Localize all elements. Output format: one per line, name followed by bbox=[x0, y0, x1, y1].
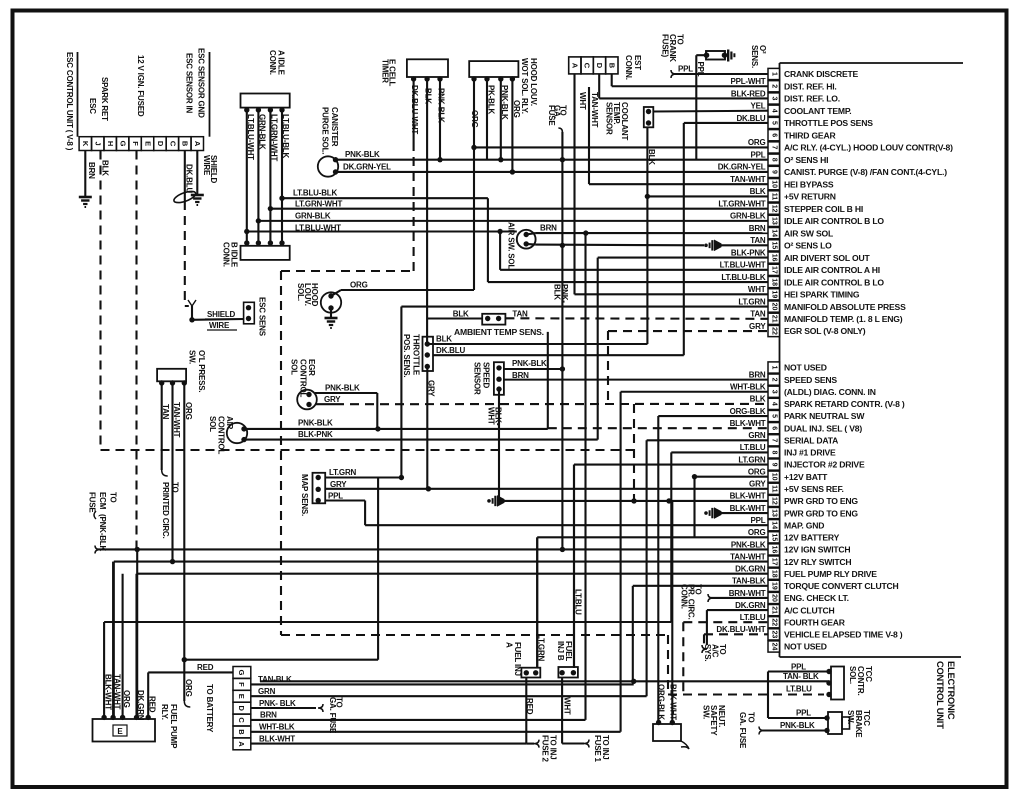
svg-text:G: G bbox=[237, 670, 246, 676]
svg-text:SW.: SW. bbox=[701, 705, 710, 719]
svg-text:HOOD LOUV.: HOOD LOUV. bbox=[529, 58, 538, 106]
svg-text:9: 9 bbox=[771, 463, 778, 467]
svg-text:7: 7 bbox=[771, 145, 778, 149]
wire row7 ORG trunk bbox=[341, 77, 768, 290]
ECU connector 2 pin 8: INJ #1 DRIVE bbox=[740, 443, 836, 458]
label TCC CONTR. SOL. bbox=[848, 666, 873, 695]
svg-text:CONN.: CONN. bbox=[624, 55, 633, 80]
pump wires bbox=[104, 562, 671, 718]
air control solenoid bbox=[227, 423, 598, 443]
svg-text:AMBIENT TEMP SENS.: AMBIENT TEMP SENS. bbox=[454, 327, 544, 337]
svg-text:ORG: ORG bbox=[748, 528, 766, 537]
svg-text:COOLANT TEMP.: COOLANT TEMP. bbox=[784, 106, 851, 116]
svg-text:BLK-WHT: BLK-WHT bbox=[730, 492, 766, 501]
labels bottom strip wires bbox=[258, 675, 296, 743]
ECU connector 1 pin 3: DIST. REF. LO. bbox=[731, 89, 840, 104]
svg-text:BRN: BRN bbox=[749, 224, 766, 233]
svg-text:ORG-BLK: ORG-BLK bbox=[730, 407, 766, 416]
svg-text:PNK-BLK: PNK-BLK bbox=[780, 721, 815, 730]
svg-text:BRN: BRN bbox=[260, 711, 277, 720]
E cell timer box bbox=[407, 59, 448, 81]
svg-text:INJ #1 DRIVE: INJ #1 DRIVE bbox=[784, 448, 836, 458]
svg-text:ORG: ORG bbox=[122, 690, 131, 708]
svg-text:PNK-BLK: PNK-BLK bbox=[345, 150, 380, 159]
svg-text:19: 19 bbox=[771, 582, 778, 590]
wire s2 row17 TAN-WHT 12V rly switch bbox=[114, 559, 768, 718]
svg-text:ORG: ORG bbox=[748, 467, 766, 476]
svg-text:LT.GRN: LT.GRN bbox=[738, 297, 766, 306]
svg-text:SOL.: SOL. bbox=[296, 283, 305, 301]
svg-text:INJ B: INJ B bbox=[556, 641, 565, 661]
wire row14 BRN / LT.BLU-WHT bus bbox=[536, 230, 768, 235]
ECU connector 2 pin 3: (ALDL) DIAG. CONN. IN bbox=[730, 383, 876, 398]
label TO PR.CIRC.CONN. bbox=[680, 584, 703, 620]
svg-text:1: 1 bbox=[771, 72, 778, 76]
svg-text:WHT-BLK: WHT-BLK bbox=[259, 723, 295, 732]
label RED / LT.GRN bbox=[525, 634, 546, 715]
svg-text:INJECTOR #2 DRIVE: INJECTOR #2 DRIVE bbox=[784, 460, 865, 470]
fuel pump relay bbox=[93, 715, 156, 742]
svg-text:TAN-WHT: TAN-WHT bbox=[113, 674, 122, 710]
svg-text:CONN.: CONN. bbox=[221, 242, 230, 267]
svg-text:RED: RED bbox=[197, 663, 214, 672]
svg-text:GRN-BLK: GRN-BLK bbox=[730, 212, 766, 221]
wire s2 row15 ORG bbox=[537, 537, 768, 667]
ESC control unit outline bbox=[77, 52, 79, 137]
idle conn wires 4 columns bbox=[247, 110, 282, 243]
TCC control solenoid bbox=[768, 667, 844, 719]
ECU connector 1 pin 17: IDLE AIR CONTROL A HI bbox=[720, 261, 880, 276]
svg-text:E: E bbox=[143, 141, 152, 146]
svg-text:2: 2 bbox=[771, 84, 778, 88]
label THROTTLE POS. SENS. bbox=[402, 334, 421, 377]
ECU connector 2 pin 19: TORQUE CONVERT CLUTCH bbox=[732, 577, 899, 592]
fuel injector A bbox=[521, 537, 540, 747]
svg-text:SENSOR: SENSOR bbox=[604, 102, 613, 135]
svg-text:3: 3 bbox=[771, 390, 778, 394]
wire s2 row10 ORG bbox=[692, 474, 768, 537]
ECU connector 2 pin 13: PWR GRD TO ENG bbox=[730, 504, 859, 519]
svg-text:18: 18 bbox=[771, 570, 778, 578]
svg-text:ORG: ORG bbox=[470, 110, 479, 128]
svg-text:TO BATTERY: TO BATTERY bbox=[205, 684, 214, 733]
svg-text:11: 11 bbox=[771, 485, 778, 493]
svg-text:2: 2 bbox=[771, 378, 778, 382]
wire row21 TAN dashed from ambient temp bbox=[505, 317, 768, 320]
ECU connector 1 pin 7: A/C RLY. (4-CYL.) HOOD LOUV CONTR(V-8) bbox=[748, 138, 953, 153]
svg-text:LT.GRN-WHT: LT.GRN-WHT bbox=[270, 114, 279, 161]
ECU connector 2 pin 20: ENG. CHECK LT. bbox=[729, 589, 849, 604]
canister purge solenoid bbox=[318, 156, 338, 176]
svg-text:16: 16 bbox=[771, 254, 778, 262]
svg-text:FUSE: FUSE bbox=[547, 105, 556, 126]
labels TCC brake wires bbox=[780, 709, 815, 731]
EST wire labels WHT TAN-WHT bbox=[578, 92, 599, 128]
ECU connector 1 pin 2: DIST. REF. HI. bbox=[730, 77, 836, 92]
svg-text:+12V BATT: +12V BATT bbox=[784, 472, 828, 482]
label O'L PRESS. SW. bbox=[188, 350, 207, 392]
svg-text:TAN- BLK: TAN- BLK bbox=[783, 672, 819, 681]
o'l press wires bbox=[162, 383, 378, 707]
svg-text:GRN: GRN bbox=[748, 431, 766, 440]
ECU connector 2 pin 9: INJECTOR #2 DRIVE bbox=[738, 455, 865, 470]
ECU connector 2 pin 24: NOT USED bbox=[768, 641, 827, 652]
ECU connector 1 pin 14: AIR SW SOL bbox=[749, 224, 833, 239]
label TO PRINTED CIRC. bbox=[161, 482, 180, 539]
wire row17 LT.BLU-WHT riser bbox=[500, 232, 768, 270]
TAN-BLK bus to TCC bbox=[260, 679, 829, 684]
wire s2 row18 DK.GRN fuel pump rly drive bbox=[137, 549, 768, 717]
svg-text:15: 15 bbox=[771, 241, 778, 249]
wire s2 row4 BLK / GRY dashed bbox=[335, 403, 768, 405]
wire row12 LT.GRN-WHT from idle conn bbox=[268, 206, 768, 211]
labels throttle wires bbox=[427, 335, 466, 398]
MAP sensor bbox=[313, 473, 405, 504]
ESC pin G bbox=[116, 137, 128, 151]
wire ESC B DK.BLU shielded bbox=[173, 151, 197, 307]
svg-text:TAN-BLK: TAN-BLK bbox=[732, 577, 766, 586]
svg-text:BLK-WHT: BLK-WHT bbox=[730, 504, 766, 513]
ECU connector 2 pin 15: 12V BATTERY bbox=[748, 528, 840, 543]
svg-text:WIRE: WIRE bbox=[209, 321, 230, 330]
neutral safety switch bbox=[653, 501, 689, 749]
svg-text:13: 13 bbox=[771, 217, 778, 225]
svg-text:PNK-BLK: PNK-BLK bbox=[298, 419, 333, 428]
ECU connector 1 pin 12: STEPPER COIL B HI bbox=[718, 199, 863, 214]
svg-text:RED: RED bbox=[148, 696, 157, 713]
svg-text:O² SENS LO: O² SENS LO bbox=[784, 241, 832, 251]
svg-text:PPL: PPL bbox=[328, 491, 343, 500]
svg-text:IDLE AIR CONTROL B LO: IDLE AIR CONTROL B LO bbox=[784, 216, 884, 226]
svg-text:BLK: BLK bbox=[750, 395, 766, 404]
label TO GA. FUSE (bottom strip) bbox=[328, 697, 344, 734]
wire row5 DK.BLU trunk to throttle pos sens bbox=[433, 123, 768, 355]
svg-text:DK.BLU-WHT: DK.BLU-WHT bbox=[410, 85, 419, 134]
label AIR CONTROL SOL bbox=[208, 416, 234, 454]
svg-text:SENS.: SENS. bbox=[750, 45, 759, 68]
svg-text:SHIELD: SHIELD bbox=[207, 310, 236, 319]
svg-text:B: B bbox=[237, 729, 246, 735]
svg-text:DIST. REF. LO.: DIST. REF. LO. bbox=[784, 94, 840, 104]
wire row4 YEL from coolant sensor bbox=[653, 110, 768, 113]
svg-text:19: 19 bbox=[771, 290, 778, 298]
wire s2 row14 PPL from MAP bbox=[325, 501, 768, 526]
svg-text:PPL: PPL bbox=[796, 709, 811, 718]
svg-text:EST: EST bbox=[633, 55, 642, 70]
svg-text:LT.BLU-BLK: LT.BLU-BLK bbox=[281, 114, 290, 158]
ESC SENS box bbox=[244, 302, 255, 324]
label TO INJ FUSE 2 bbox=[541, 735, 558, 763]
EGR control solenoid bbox=[297, 390, 380, 432]
label E CELL TIMER bbox=[381, 59, 397, 87]
ECU connector 2 pin 22: FOURTH GEAR bbox=[740, 613, 846, 628]
svg-text:ECM: ECM bbox=[98, 492, 107, 510]
svg-text:6: 6 bbox=[771, 133, 778, 137]
TCC brake switch bbox=[759, 712, 850, 735]
svg-text:18: 18 bbox=[771, 278, 778, 286]
label TO INJ FUSE 1 bbox=[593, 735, 610, 763]
labels idle wire colors bbox=[246, 114, 290, 161]
svg-text:WHT: WHT bbox=[487, 407, 496, 425]
svg-text:EGR: EGR bbox=[307, 359, 316, 376]
svg-text:PK-BLK: PK-BLK bbox=[487, 85, 496, 114]
svg-text:GRY: GRY bbox=[324, 395, 341, 404]
labels MAP wires bbox=[328, 468, 357, 500]
svg-text:FUSE 1: FUSE 1 bbox=[593, 735, 602, 763]
svg-text:22: 22 bbox=[771, 618, 778, 626]
ESC pin J bbox=[92, 137, 104, 151]
svg-text:TIMER: TIMER bbox=[381, 59, 390, 83]
label O2 SENS. bbox=[750, 45, 767, 68]
svg-text:LT.BLU: LT.BLU bbox=[786, 684, 812, 693]
svg-text:HEI BYPASS: HEI BYPASS bbox=[784, 179, 834, 189]
ECU connector 1 pin 9: CANIST. PURGE (V-8) /FAN CONT.(4-CYL.) bbox=[718, 163, 947, 178]
ECU connector 2 pin 12: PWR GRD TO ENG bbox=[730, 492, 859, 507]
svg-text:LT.BLU-WHT: LT.BLU-WHT bbox=[720, 261, 766, 270]
svg-text:SYS.: SYS. bbox=[703, 644, 712, 661]
svg-text:BLK-RED: BLK-RED bbox=[731, 89, 766, 98]
ECU connector 1 pin 15: O² SENS LO bbox=[750, 236, 832, 251]
svg-text:DK.GRN-YEL: DK.GRN-YEL bbox=[718, 163, 766, 172]
wot rly wires bbox=[487, 79, 512, 172]
wire row9 DK.GRN-YEL bbox=[336, 169, 768, 174]
wire row18 LT.BLU-BLK riser bbox=[488, 198, 768, 282]
svg-text:LT.BLU: LT.BLU bbox=[740, 613, 766, 622]
svg-text:SPEED SENS: SPEED SENS bbox=[784, 375, 837, 385]
svg-text:ESC SENSOR IN: ESC SENSOR IN bbox=[185, 53, 194, 114]
label TO CRANK FUSE bbox=[661, 34, 685, 62]
ECU connector 2 pin 16: 12V IGN SWITCH bbox=[731, 540, 851, 555]
svg-text:VEHICLE ELAPSED TIME V-8 ): VEHICLE ELAPSED TIME V-8 ) bbox=[784, 630, 903, 640]
svg-text:8: 8 bbox=[771, 158, 778, 162]
svg-text:GA. FUSE: GA. FUSE bbox=[328, 697, 337, 734]
svg-text:5: 5 bbox=[771, 414, 778, 418]
O2 sensor symbol top bbox=[696, 50, 734, 160]
ESC pin F bbox=[129, 137, 141, 151]
svg-text:DK.GRN: DK.GRN bbox=[735, 601, 766, 610]
O'L pressure switch bbox=[157, 369, 187, 386]
svg-text:DK.GRN-YEL: DK.GRN-YEL bbox=[343, 163, 391, 172]
svg-text:A: A bbox=[505, 642, 514, 648]
svg-text:12: 12 bbox=[771, 205, 778, 213]
svg-text:MANIFOLD ABSOLUTE PRESS: MANIFOLD ABSOLUTE PRESS bbox=[784, 302, 906, 312]
svg-text:LT.GRN-WHT: LT.GRN-WHT bbox=[718, 199, 765, 208]
svg-text:F: F bbox=[237, 682, 246, 687]
wire s2 row13 BLK-WHT with shield symbol bbox=[704, 507, 768, 519]
wire row8 PPL / PNK-BLK bus bbox=[336, 157, 768, 162]
svg-text:E: E bbox=[237, 694, 246, 699]
svg-text:O² SENS HI: O² SENS HI bbox=[784, 155, 828, 165]
ESC pin H bbox=[104, 137, 116, 151]
ambient temp sensor bbox=[427, 314, 505, 325]
svg-text:E: E bbox=[117, 727, 123, 736]
label FUEL INJ B bbox=[556, 641, 573, 661]
svg-text:THROTTLE POS SENS: THROTTLE POS SENS bbox=[784, 118, 873, 128]
label FUEL INJ A bbox=[505, 642, 523, 676]
svg-text:DK.BLU-WHT: DK.BLU-WHT bbox=[716, 625, 765, 634]
ECU connector 1 pin 16: AIR DIVERT SOL OUT bbox=[731, 248, 871, 263]
wire s2 row9 LT.GRN riser to fuel inj B bbox=[574, 465, 768, 668]
svg-text:BLK-WHT: BLK-WHT bbox=[669, 684, 678, 720]
ECU connector 1 pin 20: MANIFOLD ABSOLUTE PRESS bbox=[738, 297, 906, 312]
svg-text:DK.GRN: DK.GRN bbox=[136, 690, 145, 721]
svg-text:A: A bbox=[237, 741, 246, 747]
ECU connector 1 pin 18: IDLE AIR CONTROL B LO bbox=[721, 273, 884, 288]
label EST CONN. bbox=[624, 55, 642, 80]
svg-text:TAN: TAN bbox=[750, 310, 766, 319]
svg-text:WIRE: WIRE bbox=[202, 155, 211, 176]
svg-text:ORG: ORG bbox=[184, 402, 193, 420]
svg-text:D: D bbox=[595, 63, 604, 69]
svg-text:PNK-BLK: PNK-BLK bbox=[437, 88, 446, 123]
svg-text:DK.BLU: DK.BLU bbox=[436, 346, 465, 355]
wire ESC K BRN to ground bbox=[79, 151, 96, 208]
svg-text:STEPPER COIL B HI: STEPPER COIL B HI bbox=[784, 204, 863, 214]
svg-text:DK.GRN: DK.GRN bbox=[735, 565, 766, 574]
wire row22 GRY dashed from EGR bbox=[608, 331, 768, 404]
svg-text:PPL: PPL bbox=[751, 516, 766, 525]
svg-text:PARK NEUTRAL SW: PARK NEUTRAL SW bbox=[784, 411, 865, 421]
ESC pin D bbox=[154, 137, 166, 151]
svg-text:TORQUE CONVERT CLUTCH: TORQUE CONVERT CLUTCH bbox=[784, 581, 899, 591]
svg-text:TAN: TAN bbox=[750, 236, 766, 245]
svg-text:D: D bbox=[156, 141, 165, 147]
labels TCC wires bbox=[783, 662, 819, 693]
svg-text:17: 17 bbox=[771, 266, 778, 274]
wire row10 TAN-WHT from EST C bbox=[589, 87, 768, 184]
PNK-BLK trunk vertical bbox=[561, 132, 563, 549]
svg-text:5: 5 bbox=[771, 121, 778, 125]
label TO GA. FUSE (top) bbox=[547, 105, 568, 160]
svg-text:WHT: WHT bbox=[562, 697, 571, 715]
svg-text:PPL: PPL bbox=[751, 150, 766, 159]
EST conn bbox=[569, 57, 618, 74]
hood louv wot sol rly box bbox=[469, 61, 518, 82]
svg-text:ELECTRONIC: ELECTRONIC bbox=[946, 661, 956, 720]
svg-text:3: 3 bbox=[771, 97, 778, 101]
svg-text:LT.BLU-BLK: LT.BLU-BLK bbox=[721, 273, 765, 282]
svg-text:16: 16 bbox=[771, 546, 778, 554]
svg-text:10: 10 bbox=[771, 473, 778, 481]
svg-text:PPL: PPL bbox=[696, 62, 705, 77]
air sw solenoid bbox=[517, 230, 536, 249]
svg-text:9: 9 bbox=[771, 170, 778, 174]
ESC pin E bbox=[141, 137, 153, 151]
svg-text:GRN-BLK: GRN-BLK bbox=[295, 212, 331, 221]
svg-text:BRN-WHT: BRN-WHT bbox=[729, 589, 766, 598]
A idle connector bbox=[241, 94, 290, 113]
dashed harness J to right bbox=[101, 449, 635, 451]
svg-text:+5V RETURN: +5V RETURN bbox=[784, 192, 836, 202]
svg-text:GRY: GRY bbox=[749, 480, 766, 489]
ECU connector 1 pin 22: EGR SOL (V-8 ONLY) bbox=[749, 322, 866, 337]
ESC pin B bbox=[179, 137, 191, 151]
label SHIELD WIRE (lower) bbox=[205, 310, 243, 330]
ECU connector 1 pin 6: THIRD GEAR bbox=[768, 130, 836, 141]
svg-text:BLK-WHT: BLK-WHT bbox=[730, 419, 766, 428]
label HOOD LOUV. SOL. bbox=[296, 283, 319, 307]
label TO A/C SYS. bbox=[702, 644, 727, 661]
svg-text:O'L PRESS.: O'L PRESS. bbox=[197, 350, 206, 392]
svg-text:BRN: BRN bbox=[512, 371, 529, 380]
svg-text:PNK-BLK: PNK-BLK bbox=[512, 359, 547, 368]
svg-text:8: 8 bbox=[771, 450, 778, 454]
svg-text:1: 1 bbox=[771, 366, 778, 370]
wire ESC F dashed 12V ign bbox=[135, 151, 137, 550]
wire idle LT.BLU-WHT to air sw sol bbox=[244, 229, 517, 234]
svg-text:7: 7 bbox=[771, 438, 778, 442]
ECU connector 1 pin 4: COOLANT TEMP. bbox=[751, 102, 852, 117]
ECU connector 1 pin 10: HEI BYPASS bbox=[730, 175, 834, 190]
wire riser x547 bbox=[547, 332, 549, 429]
svg-text:BRN: BRN bbox=[749, 370, 766, 379]
svg-text:ORG: ORG bbox=[350, 281, 368, 290]
labels speed sensor wires bbox=[487, 359, 548, 426]
svg-text:TAN: TAN bbox=[161, 404, 170, 420]
svg-text:YEL: YEL bbox=[751, 102, 766, 111]
wire row3 BLK-RED from EST D bbox=[599, 74, 768, 98]
ECU connector 1 pin 11: +5V RETURN bbox=[750, 187, 836, 202]
labels e-cell wire colors bbox=[410, 85, 446, 134]
svg-text:PPL: PPL bbox=[791, 662, 806, 671]
svg-text:SOL: SOL bbox=[290, 359, 299, 375]
svg-text:ENG. CHECK LT.: ENG. CHECK LT. bbox=[784, 593, 849, 603]
svg-text:BLK: BLK bbox=[453, 310, 469, 319]
svg-text:15: 15 bbox=[771, 533, 778, 541]
wire s2 row8 LT.BLU riser bbox=[671, 452, 768, 622]
svg-text:BRN: BRN bbox=[87, 162, 96, 179]
svg-text:(PNK-BLK: (PNK-BLK bbox=[98, 514, 107, 551]
ECU block outline bbox=[779, 63, 781, 657]
svg-text:RLY.: RLY. bbox=[160, 704, 169, 720]
wire s2 row20 BRN-WHT to printed circuit conn bbox=[708, 594, 768, 602]
wire s2 row11 GRY from MAP and throttle bbox=[325, 367, 768, 492]
svg-text:TAN-WHT: TAN-WHT bbox=[590, 92, 599, 128]
labels wot rly wire colors bbox=[470, 85, 521, 128]
svg-text:PPL: PPL bbox=[678, 65, 693, 74]
svg-text:(ALDL) DIAG. CONN. IN: (ALDL) DIAG. CONN. IN bbox=[784, 387, 876, 397]
ESC pin C bbox=[166, 137, 178, 151]
ESC pin A bbox=[191, 137, 203, 151]
svg-text:DK.BLU: DK.BLU bbox=[736, 114, 765, 123]
svg-text:HEI SPARK TIMING: HEI SPARK TIMING bbox=[784, 290, 860, 300]
svg-text:4: 4 bbox=[771, 402, 778, 406]
svg-text:CRANK DISCRETE: CRANK DISCRETE bbox=[784, 69, 859, 79]
ESC pin K bbox=[79, 137, 91, 151]
svg-text:BLK: BLK bbox=[424, 88, 433, 104]
svg-text:BLK-PNK: BLK-PNK bbox=[298, 430, 333, 439]
dashed harness rectangle left bbox=[281, 271, 824, 695]
svg-text:IDLE AIR CONTROL A HI: IDLE AIR CONTROL A HI bbox=[784, 265, 880, 275]
bottom strip wires bbox=[251, 233, 647, 744]
wire s2 row22 LT.BLU dashed fourth gear bbox=[683, 622, 768, 694]
svg-text:4: 4 bbox=[771, 109, 778, 113]
ECU connector 2 pin 23: VEHICLE ELAPSED TIME V-8 ) bbox=[716, 625, 902, 640]
svg-text:J: J bbox=[94, 142, 103, 146]
svg-text:ORG: ORG bbox=[748, 138, 766, 147]
wire row13 GRN-BLK from idle conn bbox=[256, 218, 768, 223]
svg-text:TAN-WHT: TAN-WHT bbox=[730, 552, 766, 561]
svg-text:A: A bbox=[570, 63, 579, 69]
svg-text:AIR DIVERT SOL OUT: AIR DIVERT SOL OUT bbox=[784, 253, 870, 263]
svg-text:22: 22 bbox=[771, 327, 778, 335]
wire s2 row23 DK.BLU-WHT dashed bbox=[704, 634, 768, 645]
wire s2 row5 ORG-BLK riser to neutral safety sw bbox=[658, 416, 768, 722]
labels air control wires bbox=[298, 419, 333, 439]
svg-text:MAP. GND: MAP. GND bbox=[784, 520, 824, 530]
ECU connector 2 pin 21: A/C CLUTCH bbox=[735, 601, 834, 616]
svg-text:GA. FUSE: GA. FUSE bbox=[738, 712, 747, 749]
